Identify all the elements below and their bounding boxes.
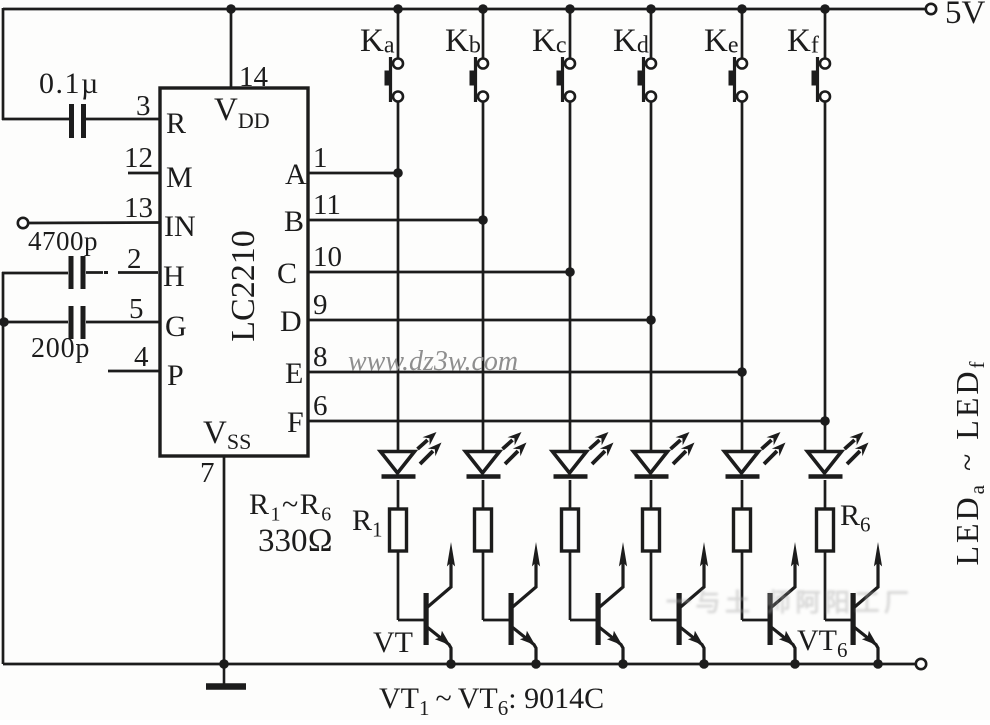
node: junction column a on +5V rail [393, 4, 403, 14]
svg-text:G: G [165, 310, 187, 343]
LED LEDb [466, 432, 527, 477]
ground symbol [223, 664, 226, 684]
wire: rail to switch Kd [650, 9, 653, 58]
resistor R2 [475, 509, 492, 551]
resistor R3 [562, 509, 579, 551]
node: junction column b on +5V rail [478, 4, 488, 14]
svg-text:11: 11 [313, 189, 341, 221]
node: emitter junction VT2 on ground rail [531, 659, 541, 669]
svg-text:8: 8 [313, 341, 328, 373]
node: junction VDD on rail [226, 4, 236, 14]
pushbutton Kc [557, 57, 576, 102]
wire: left to C1 left plate [2, 118, 69, 121]
svg-text:E: E [285, 357, 303, 390]
node: junction C on column c [565, 267, 575, 277]
wire: LED to resistor R6 [824, 480, 827, 509]
svg-text:2: 2 [127, 243, 142, 275]
svg-text:10: 10 [313, 241, 342, 273]
node: emitter junction VT3 on ground rail [618, 659, 628, 669]
node: junction F on column f [820, 416, 830, 426]
wire: C2 left plate to left drop [2, 272, 68, 275]
node: junction column f on +5V rail [820, 4, 830, 14]
pushbutton Kd [638, 57, 657, 102]
resistor R4 [643, 509, 660, 551]
wire: rail to switch Kf [824, 9, 827, 58]
svg-text:D: D [280, 305, 302, 338]
svg-text:VT: VT [373, 626, 413, 659]
svg-text:0.1µ: 0.1µ [39, 67, 100, 100]
terminal: IN input open circle [18, 218, 28, 228]
svg-text:4700p: 4700p [28, 226, 98, 256]
wire: switch Kf down column to LED [824, 102, 827, 451]
svg-text:IN: IN [164, 210, 196, 243]
node: junction B on column b [478, 215, 488, 225]
resistor R6 [817, 509, 834, 551]
svg-text:C: C [277, 257, 297, 290]
wire: switch Kd down column to LED [650, 102, 653, 451]
node: junction D on column d [646, 315, 656, 325]
LED LEDe [725, 432, 786, 477]
node: emitter junction VT4 on ground rail [699, 659, 709, 669]
svg-text:7: 7 [200, 457, 215, 489]
svg-text:B: B [284, 205, 304, 238]
transistor VT4 (NPN 9014C) [677, 542, 709, 664]
wire: LED to resistor R5 [741, 480, 744, 509]
wire: pin A to column a [308, 172, 398, 175]
svg-text:12: 12 [124, 142, 153, 174]
node: junction C3 on left drop [0, 317, 9, 327]
wire: +5V top rail [3, 8, 931, 11]
svg-text:R: R [166, 107, 186, 140]
wire: pin 7 VSS down to ground rail [223, 456, 226, 664]
wire: left drop #2 (C2/C3 common) down to ground [2, 272, 5, 664]
wire: resistor R2 to base of VT2 [482, 551, 485, 620]
node: junction column d on +5V rail [646, 4, 656, 14]
wire: switch Ka down column to LED [397, 102, 400, 451]
terminal: 5V supply open circle [926, 4, 936, 14]
wire: LED to resistor R3 [569, 480, 572, 509]
node: emitter junction VT1 on ground rail [446, 659, 456, 669]
svg-text:LC2210: LC2210 [225, 230, 262, 341]
node: junction A on column a [393, 168, 403, 178]
wire: resistor R1 to base of VT1 [397, 551, 400, 620]
capacitor C2 4700p plates [69, 256, 74, 289]
node: junction column e on +5V rail [737, 4, 747, 14]
wire: LED to resistor R1 [397, 480, 400, 509]
wire: C3 left plate [2, 321, 68, 324]
capacitor C3 200p plates [69, 306, 74, 339]
transistor VT3 (NPN 9014C) [596, 542, 628, 664]
svg-text:5: 5 [129, 293, 144, 325]
LED LEDc [553, 432, 614, 477]
svg-text:A: A [285, 158, 307, 191]
wire: rail to switch Kc [569, 9, 572, 58]
transistor VT6 (NPN 9014C) [851, 542, 883, 664]
wire: pin F to column f [308, 420, 825, 423]
capacitor C1 plates [69, 104, 74, 138]
svg-text:R1~R6: R1~R6 [249, 488, 333, 526]
svg-text:www.dz3w.com: www.dz3w.com [348, 346, 518, 377]
LED LEDa [381, 432, 442, 477]
wire: IN terminal to pin 13 [28, 221, 160, 224]
node: junction VSS on ground rail [219, 659, 229, 669]
node: emitter junction VT5 on ground rail [790, 659, 800, 669]
wire: C1 to IC pin R [86, 118, 160, 121]
wire: pin D to column d [308, 319, 651, 322]
wire: resistor R5 to base of VT5 [741, 551, 744, 620]
wire: resistor R6 to base of VT6 [824, 551, 827, 620]
wire: LED to resistor R2 [482, 480, 485, 509]
svg-text:3: 3 [136, 90, 151, 122]
svg-text:M: M [166, 161, 193, 194]
wire: C3 to pin G [86, 321, 160, 324]
svg-text:200p: 200p [31, 333, 90, 364]
node: junction column c on +5V rail [565, 4, 575, 14]
wire: pin B to column b [308, 219, 483, 222]
wire: switch Kb down column to LED [482, 102, 485, 451]
transistor VT1 (NPN 9014C) [424, 542, 456, 664]
resistor R1 [390, 509, 407, 551]
LED LEDd [634, 432, 695, 477]
svg-text:1: 1 [313, 142, 328, 174]
resistor R5 [734, 509, 751, 551]
op-amp/IC U1 LC2210 body [160, 88, 308, 456]
wire: rail to switch Ke [741, 9, 744, 58]
svg-text:LEDa ~ LEDf: LEDa ~ LEDf [949, 358, 989, 565]
transistor VT2 (NPN 9014C) [509, 542, 541, 664]
svg-text:一与土 师阿阳工厂: 一与土 师阿阳工厂 [666, 589, 913, 617]
LED LEDf [808, 432, 869, 477]
svg-text:9: 9 [313, 289, 328, 321]
svg-text:4: 4 [134, 341, 149, 373]
terminal: ground rail right open circle [916, 659, 926, 669]
wire: left drop from rail to C1 [2, 8, 5, 120]
wire: rail to switch Ka [397, 9, 400, 58]
pushbutton Kb [470, 57, 489, 102]
wire: resistor R3 to base of VT3 [569, 551, 572, 620]
wire: switch Kc down column to LED [569, 102, 572, 451]
svg-text:VT1 ~ VT6: 9014C: VT1 ~ VT6: 9014C [379, 682, 604, 720]
wire: rail to switch Kb [482, 9, 485, 58]
pushbutton Kf [812, 57, 831, 102]
watermark: faint gray marks bottom right [666, 589, 913, 617]
svg-text:330Ω: 330Ω [258, 523, 333, 559]
wire: LED to resistor R4 [650, 480, 653, 509]
node: junction E on column e [737, 367, 747, 377]
svg-text:H: H [163, 260, 185, 293]
svg-text:F: F [287, 406, 304, 439]
svg-text:6: 6 [313, 390, 328, 422]
wire: switch Ke down column to LED [741, 102, 744, 451]
wire: ground rail [3, 663, 916, 666]
pin P (4) stub [108, 370, 160, 373]
svg-text:5V: 5V [945, 0, 986, 31]
transistor VT5 (NPN 9014C) [768, 542, 800, 664]
svg-text:P: P [167, 359, 184, 392]
pushbutton Ka [385, 57, 404, 102]
wire: C2 to pin H (dash-dot as in scan) [86, 271, 103, 274]
node: emitter junction VT6 on ground rail [873, 659, 883, 669]
pin M (12) stub [128, 172, 160, 175]
wire: pin C to column c [308, 271, 570, 274]
wire: resistor R4 to base of VT4 [650, 551, 653, 620]
wire: pin E to column e [308, 371, 742, 374]
pushbutton Ke [729, 57, 748, 102]
svg-text:13: 13 [124, 192, 153, 224]
wire: pin 14 VDD to rail [230, 9, 233, 88]
svg-text:14: 14 [239, 61, 269, 93]
